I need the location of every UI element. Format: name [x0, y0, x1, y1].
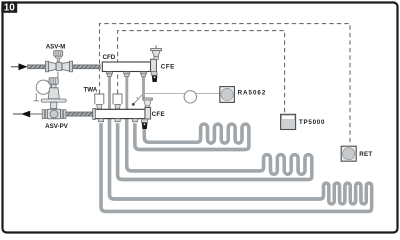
return manifold right block — [145, 107, 151, 119]
manifold connection fitting 2 — [124, 72, 130, 77]
supply main lead line — [11, 66, 19, 68]
TWA valve bonnet 2 — [115, 104, 121, 109]
svg-text:ASV-M: ASV-M — [46, 43, 66, 50]
floor loop circuit A (coil 1) — [135, 123, 249, 149]
return flow arrow — [21, 111, 30, 118]
svg-text:10: 10 — [4, 3, 16, 14]
ASV-M handle stem — [57, 58, 59, 62]
sensor capillary line to RA5062 — [145, 92, 219, 94]
svg-text:ASV-PV: ASV-PV — [45, 123, 69, 130]
svg-text:CFE: CFE — [161, 63, 175, 70]
manifold connection fitting 1 — [107, 72, 113, 77]
impulse tube link from ASV-M — [57, 72, 59, 78]
manifold connection fitting 3 — [141, 72, 147, 77]
actuator lower neck — [51, 102, 57, 108]
drain fitting nut under manifold — [141, 119, 147, 123]
TWA actuator 1 — [95, 94, 104, 104]
dashed control line to TP5000 (inner) — [118, 31, 285, 114]
floor loop circuit C (coil 3) — [101, 117, 372, 211]
CFE flow meter funnel — [144, 100, 152, 106]
room sensor RA5062 — [220, 87, 235, 103]
svg-text:TWA: TWA — [84, 86, 98, 93]
manifold (return, bottom) — [95, 109, 145, 118]
dashed control line to RET (outer) — [100, 24, 351, 146]
TWA valve bonnet 1 — [97, 104, 103, 109]
remote sensor bulb (circle) — [184, 91, 196, 103]
CFE air vent (top): stem — [155, 45, 157, 48]
valve ASV-PV — [42, 109, 66, 119]
CFE funnel cylinder — [154, 57, 159, 60]
return port cap 1 — [98, 119, 103, 122]
floor loop circuit B (coil 2) — [118, 117, 312, 180]
impulse tube loop — [36, 80, 50, 94]
return port cap 2 — [115, 119, 120, 122]
figure number badge 10 — [1, 1, 17, 12]
pipe sensor probe — [134, 94, 144, 104]
CFD drain ball valve (black) — [152, 76, 157, 82]
svg-text:TP5000: TP5000 — [299, 119, 325, 126]
svg-text:CFD: CFD — [103, 54, 116, 61]
CFD right end block — [151, 59, 157, 71]
svg-text:RA5062: RA5062 — [238, 89, 267, 96]
return thin pipe segment — [30, 113, 43, 115]
CFE flow meter (bottom): cap — [143, 98, 152, 100]
ASV-PV actuator: ribbed cap — [41, 78, 66, 109]
ASV-M knob — [54, 51, 63, 57]
return main pipe (hatched) — [66, 112, 96, 116]
CFE flow meter cylinder — [145, 106, 149, 109]
supply flow arrow — [19, 63, 28, 70]
manifold CFD (supply, top) — [102, 62, 150, 72]
CFE funnel cap — [151, 48, 162, 50]
supply dropper pipe 2 — [125, 77, 128, 111]
valve ASV-M — [45, 51, 72, 72]
CFE funnel body — [152, 51, 160, 57]
supply dropper pipe 1 — [108, 77, 111, 111]
supply main pipe — [28, 65, 101, 69]
CFD drain fitting nut — [151, 71, 157, 75]
drain ball valve (black, bottom) — [142, 123, 148, 129]
actuator neck — [51, 84, 56, 87]
return port cap 3 — [132, 119, 137, 122]
svg-text:CFE: CFE — [152, 111, 165, 118]
svg-text:RET: RET — [359, 151, 372, 158]
actuator flange disc — [41, 99, 66, 102]
return main lead line — [13, 113, 22, 115]
room thermostat RET — [341, 146, 356, 161]
supply dropper pipe 3 — [142, 77, 145, 98]
return manifold left cap — [93, 109, 95, 120]
room thermostat TP5000 — [281, 114, 296, 129]
actuator bell — [48, 88, 59, 99]
TWA actuator 2 — [113, 94, 122, 104]
